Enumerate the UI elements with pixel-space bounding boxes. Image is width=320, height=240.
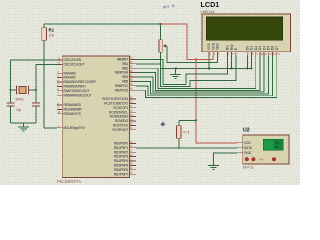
- svg-text:RB5: RB5: [122, 80, 128, 84]
- ground symbol crystal: [18, 123, 29, 131]
- svg-text:MCLR/Vpp/THV: MCLR/Vpp/THV: [64, 126, 86, 130]
- svg-text:+5V: +5V: [259, 158, 264, 161]
- wire 4.7k to +5V: [179, 119, 196, 121]
- svg-text:RE2/AN7/CS: RE2/AN7/CS: [64, 112, 81, 116]
- wire OSC2: [36, 64, 57, 90]
- svg-text:RC1/T1OSI/CCP2: RC1/T1OSI/CCP2: [104, 102, 128, 106]
- svg-text:PIC16F877A: PIC16F877A: [57, 179, 81, 184]
- wire OSC1: [10, 60, 57, 90]
- svg-text:RB7/PGD: RB7/PGD: [115, 88, 129, 92]
- svg-text:RA0/AN0: RA0/AN0: [64, 71, 77, 75]
- sensor U2 DHT11: [237, 135, 289, 164]
- svg-text:RC6/TX/CK: RC6/TX/CK: [113, 124, 129, 128]
- svg-text:RB6/PGC: RB6/PGC: [115, 84, 129, 88]
- wire RB7 to LCD D7: [136, 55, 277, 97]
- svg-text:RD7/PSP7: RD7/PSP7: [114, 172, 129, 176]
- node junction ground bus x176: [175, 67, 177, 69]
- svg-text:RC4/SDI/SDA: RC4/SDI/SDA: [110, 115, 129, 119]
- svg-text:LM016L: LM016L: [201, 9, 216, 14]
- svg-text:RE1/AN6/WR: RE1/AN6/WR: [64, 108, 83, 112]
- node junction ground bus x209: [208, 67, 210, 69]
- svg-text:RA4/T0CKI/C1OUT: RA4/T0CKI/C1OUT: [64, 89, 90, 93]
- node + marker: [160, 121, 166, 127]
- crystal X1: [10, 86, 35, 95]
- svg-text:RD6/PSP6: RD6/PSP6: [114, 168, 129, 172]
- svg-text:RB1: RB1: [122, 62, 128, 66]
- wire RB3 to LCD D3: [136, 55, 260, 90]
- wire RD1 to DHT11 DATA: [136, 147, 237, 149]
- svg-text:RB0/INT: RB0/INT: [117, 58, 128, 62]
- svg-text:RD1/PSP1: RD1/PSP1: [114, 146, 129, 150]
- svg-text:RB3/PGM: RB3/PGM: [115, 71, 129, 75]
- wire RB1 to LCD E: [136, 55, 236, 86]
- resistor R1 10k: [42, 24, 47, 128]
- svg-text:19: 19: [275, 145, 279, 149]
- svg-text:VEE: VEE: [216, 43, 220, 51]
- svg-text:VDD: VDD: [244, 141, 251, 145]
- capacitor C2: [32, 90, 40, 123]
- svg-text:RA1/AN1: RA1/AN1: [64, 76, 77, 80]
- node top junction: [159, 23, 161, 25]
- wire R1 to MCLR: [44, 127, 57, 129]
- svg-text:4.7k: 4.7k: [183, 131, 190, 135]
- node junction ground bus x247.3: [246, 67, 248, 69]
- svg-text:RD5/PSP5: RD5/PSP5: [114, 164, 129, 168]
- wire caps bottom rail: [10, 122, 35, 124]
- wire RB6 to LCD D6: [136, 55, 272, 95]
- wire DHT11 GND: [214, 153, 237, 166]
- resistor R2 4.7k: [177, 120, 181, 148]
- wire +5V top rail: [44, 23, 161, 25]
- svg-text:U2: U2: [243, 128, 250, 134]
- LCD LCD1 LM016L: [202, 14, 291, 56]
- svg-text:RB2: RB2: [122, 66, 128, 70]
- node junction ground bus x231.6: [231, 67, 233, 69]
- wire RB5 to LCD D5: [136, 55, 268, 94]
- wire pot wiper to VEE: [167, 46, 218, 62]
- svg-text:RC7/RX/DT: RC7/RX/DT: [113, 128, 129, 132]
- svg-text:D7: D7: [275, 46, 279, 51]
- ground symbol near pot: [170, 69, 181, 79]
- svg-text:OSC1/CLKIN: OSC1/CLKIN: [64, 58, 82, 62]
- svg-text:RD4/PSP4: RD4/PSP4: [114, 159, 129, 163]
- svg-text:DATA: DATA: [244, 146, 253, 150]
- svg-text:RE0/AN5/RD: RE0/AN5/RD: [64, 103, 82, 107]
- wire RB2 to LCD D2: [136, 55, 256, 88]
- svg-text:RD3/PSP3: RD3/PSP3: [114, 155, 129, 159]
- svg-text:22p: 22p: [16, 108, 22, 112]
- wire RB0 to LCD RS: [136, 55, 227, 84]
- background grid: [0, 0, 300, 185]
- capacitor C1: [6, 90, 14, 123]
- svg-text:RA3/AN3/VREF+: RA3/AN3/VREF+: [64, 85, 87, 89]
- svg-text:RA5/AN4/SS/C2OUT: RA5/AN4/SS/C2OUT: [64, 93, 92, 97]
- svg-text:GND: GND: [244, 151, 252, 155]
- svg-text:RB4: RB4: [122, 75, 128, 79]
- node junction ground bus x251.4: [250, 67, 252, 69]
- svg-text:OSC2/CLKOUT: OSC2/CLKOUT: [64, 63, 85, 67]
- svg-text:RC3/SCK/SCL: RC3/SCK/SCL: [109, 110, 129, 114]
- svg-text:RA2/AN2/VREF-/CVREF: RA2/AN2/VREF-/CVREF: [64, 80, 97, 84]
- svg-text:RC0/T1OSO/T1CKI: RC0/T1OSO/T1CKI: [102, 97, 128, 101]
- wire +5V red rail: [161, 24, 237, 143]
- svg-text:R1: R1: [49, 27, 55, 32]
- svg-text:DHT11: DHT11: [243, 166, 254, 170]
- wire ground bus: [161, 68, 252, 70]
- potentiometer RV1: [159, 24, 167, 68]
- wires LCD pins down: [209, 55, 251, 68]
- svg-text:8MHz: 8MHz: [16, 98, 25, 102]
- svg-text:LCD1: LCD1: [201, 0, 220, 9]
- ground symbol DHT11: [208, 166, 219, 170]
- svg-text:10k: 10k: [49, 33, 55, 37]
- microcontroller U1 PIC16F877A: [57, 56, 136, 178]
- svg-text:RC2/CCP1: RC2/CCP1: [113, 106, 128, 110]
- wire RB4 to LCD D4: [136, 55, 264, 92]
- svg-text:RC5/SDO: RC5/SDO: [115, 119, 129, 123]
